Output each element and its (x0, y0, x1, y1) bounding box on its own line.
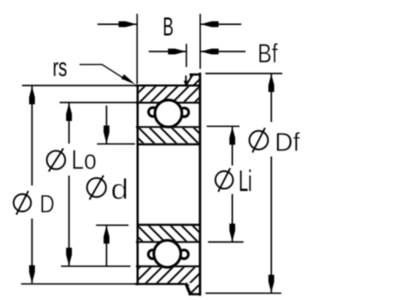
svg-text:Lo: Lo (71, 144, 96, 175)
svg-text:D: D (40, 191, 55, 219)
svg-text:rs: rs (53, 52, 68, 82)
svg-text:Li: Li (239, 165, 252, 198)
svg-text:Bf: Bf (258, 38, 278, 68)
svg-text:Df: Df (275, 129, 301, 157)
svg-text:d: d (111, 174, 129, 206)
svg-text:B: B (163, 11, 174, 41)
